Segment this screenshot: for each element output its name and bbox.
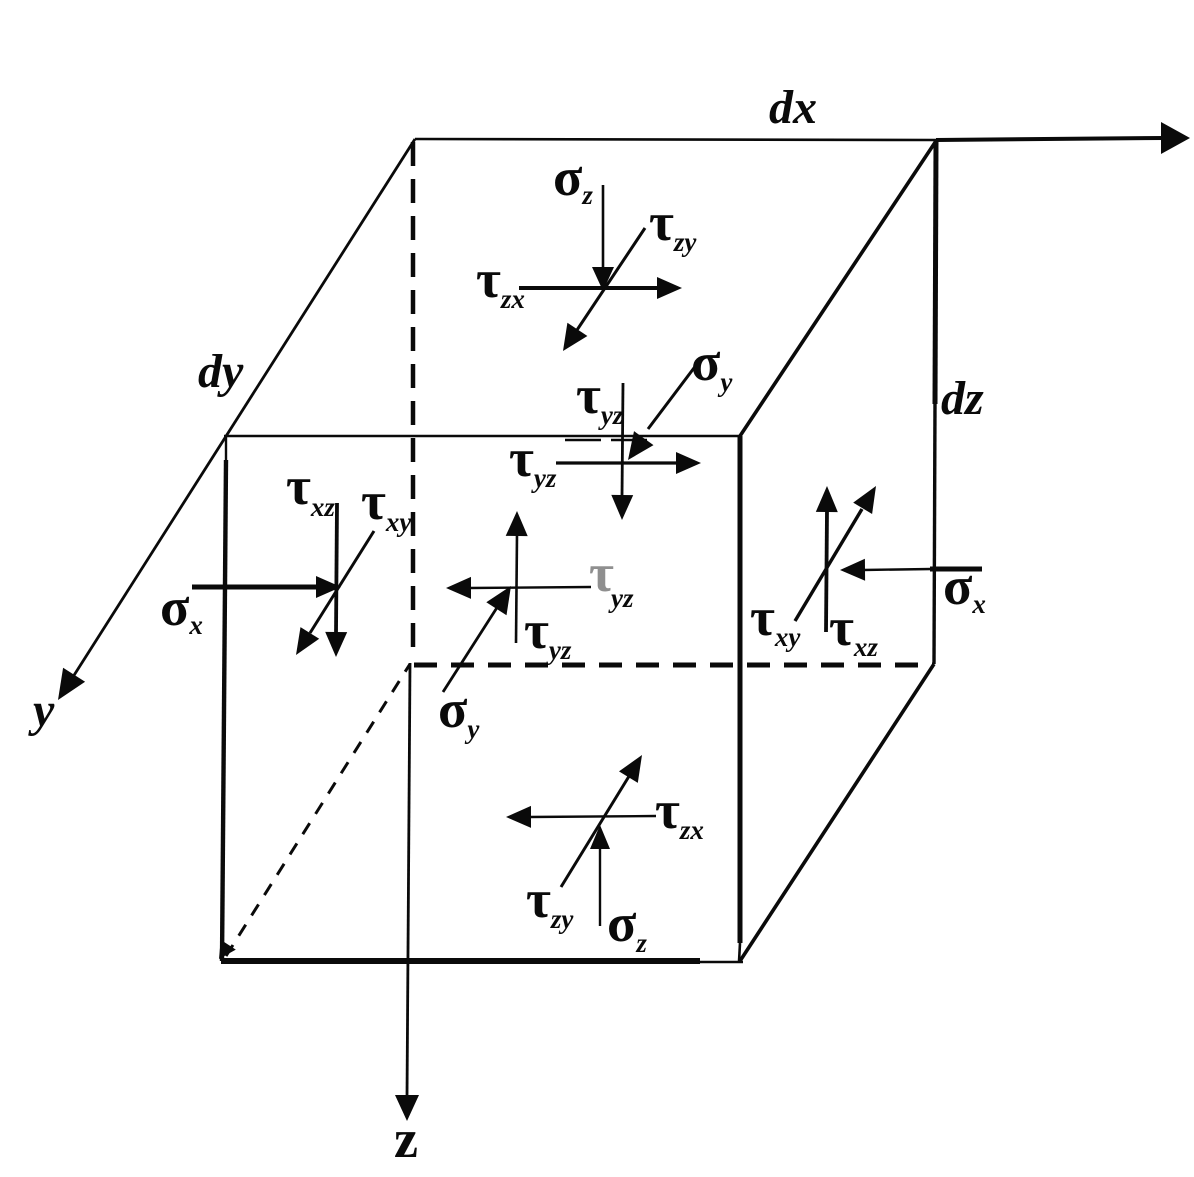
svg-text:dx: dx	[769, 81, 817, 134]
bottom face cluster: tau_zy arrow (up-right)	[561, 773, 631, 887]
svg-text:yz: yz	[608, 583, 634, 613]
svg-text:y: y	[28, 684, 55, 737]
right face cluster: sigma_x arrow (left, into face)	[930, 567, 982, 572]
cube edge top-right connector	[740, 141, 936, 436]
front-top edge cluster: sigma_y arrow (down-left onto edge)	[648, 360, 700, 429]
cube edge front-top	[224, 435, 740, 438]
svg-text:dy: dy	[198, 345, 244, 398]
y-axis arrowhead	[58, 668, 85, 700]
top face cluster: tau_zy arrow (down-left)	[577, 228, 645, 330]
cube edge bottom-left connector (hidden, dashed)	[226, 664, 410, 956]
left face cluster: tau_xz vertical arrow (down)	[336, 503, 337, 634]
scan artifact: doubled stroke under front-top edge	[565, 439, 650, 442]
cube edge front-bottom	[221, 958, 700, 964]
svg-text:dz: dz	[941, 372, 984, 425]
left face cluster: sigma_x arrow (right, into face)	[192, 585, 318, 590]
left face cluster: tau_xy diagonal arrow (down-left)	[310, 531, 374, 633]
x-axis arrowhead	[1161, 122, 1190, 154]
cube edge back-left vertical (hidden, dashed)	[411, 142, 416, 660]
center cluster: horizontal arrow (left)	[469, 587, 591, 588]
CLUSTERS	[160, 147, 986, 958]
cube edge back-right vertical bold upper part	[935, 141, 936, 404]
z-axis arrowhead	[395, 1095, 419, 1121]
cube edge back-right vertical	[934, 141, 936, 664]
right face cluster: vertical arrow (up)	[826, 510, 827, 632]
top face cluster: tau_zx arrow (right)	[519, 286, 660, 290]
bottom face cluster: sigma_z arrow (up, into face)	[599, 848, 601, 926]
front-top edge cluster: tau_yz horizontal arrow (right)	[556, 461, 678, 464]
cube edge back-bottom (hidden, dashed)	[414, 663, 934, 668]
cube edge front-right vertical	[738, 436, 743, 943]
cube edge bottom-right connector	[740, 664, 934, 961]
center (back y-face) cluster: vertical arrow (up)	[516, 534, 517, 643]
cube edge top-back + x-axis line	[415, 139, 936, 140]
right face cluster: diagonal arrow (up-right)	[795, 509, 862, 621]
top face cluster: sigma_z arrow (down)	[602, 185, 605, 270]
y-axis line through back-top-left and front-top-left corners	[64, 139, 415, 691]
center cluster: diagonal arrow (up-right)	[443, 606, 498, 692]
cube edge front-left vertical	[225, 436, 227, 462]
bottom face cluster: tau_zx arrow (left)	[529, 816, 656, 817]
front-top edge cluster: tau_yz vertical arrow (down)	[622, 383, 623, 497]
z-axis line	[407, 663, 410, 1097]
small arrowhead at front-bottom-left corner of dashed connector	[219, 940, 236, 959]
svg-text:z: z	[394, 1109, 418, 1169]
